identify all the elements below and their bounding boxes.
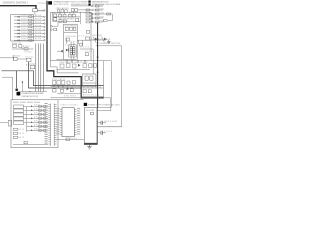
diode D1506 [14,32,34,35]
resistor R1506 [13,45,17,48]
capacitor C116 [61,9,64,12]
transistor Q701 [85,76,88,80]
diode D102 [60,50,62,53]
diode D601 [27,105,48,108]
wire t101 mid [64,31,78,33]
junction dots [66,60,67,61]
power transformer box [84,108,97,145]
svg-text:D1504: D1504 [21,25,28,27]
svg-text:C1505: C1505 [25,51,32,53]
svg-text:D601: D601 [34,105,40,107]
wire drop A [92,61,94,74]
wire link3 [51,97,82,99]
connector pin 6 [44,33,45,34]
svg-text:D1505: D1505 [21,29,28,31]
resistor R620 [66,138,69,141]
wire main board feed [96,46,122,127]
diode D607 [27,129,48,132]
svg-text:C109: C109 [85,51,92,53]
wire matrix row 1 [34,16,44,18]
IC601 body [62,108,74,137]
capacitor C115 [57,10,60,13]
svg-text:R154K: R154K [35,29,42,31]
connector pin 4 [44,26,45,27]
diode D1502 [14,18,34,21]
junction circles [53,85,54,86]
svg-text:POWER SUPPLY BOARD (AC 120V): POWER SUPPLY BOARD (AC 120V) [88,103,120,106]
resistor RP1501 [33,9,38,12]
wire transformer top [97,107,111,109]
relay contact [88,90,91,93]
wire drops [58,86,60,88]
svg-text:D602: D602 [34,109,40,111]
svg-text:R1507: R1507 [23,46,30,48]
wire secondary drops [66,39,68,44]
wire to key matrix [34,12,36,15]
svg-text:C801 0.0047: C801 0.0047 [104,121,117,123]
svg-text:D607: D607 [34,129,40,131]
diode D1505 [14,29,34,32]
svg-text:R150K: R150K [35,15,42,17]
IC601 pin ticks [60,109,62,111]
diode D602 [27,109,48,112]
resistor R502 [92,9,105,11]
svg-text:TO TUNER/AMP SECTION: TO TUNER/AMP SECTION [96,42,121,45]
svg-text:C802: C802 [104,131,112,133]
diode D1508 [14,39,34,42]
capacitor C108 [76,18,79,21]
wire collector line [18,91,48,93]
resistor R506 [103,14,112,21]
wire inner border [51,61,79,73]
wire band [53,21,80,23]
thick border section 1 [47,1,104,98]
svg-text:IC601 LC75421: IC601 LC75421 [61,105,78,107]
switching box T101 [64,24,78,59]
connector pin 2 [44,19,45,20]
wire matrix row 2 [34,19,44,21]
wire relay drops [83,86,85,88]
transformer core bar [84,143,97,145]
route arrow B+ 2 [97,72,99,73]
svg-text:C101 400V: C101 400V [66,36,77,38]
svg-text:D701 R701: D701 R701 [64,95,76,97]
diode D606 [27,125,48,128]
diode D701 [53,89,56,92]
key matrix box [11,15,34,41]
wire mid [77,39,91,41]
svg-text:D606: D606 [34,125,40,127]
ground main [107,40,111,43]
wire switch bank [26,107,28,132]
arrow up off-board [22,81,24,83]
svg-text:OPERATION BOARD 1: OPERATION BOARD 1 [53,1,71,4]
connector pin AC2 [51,29,53,31]
resistor R102 [72,14,75,17]
svg-text:R610: R610 [18,129,24,131]
svg-text:R151K: R151K [35,19,42,21]
diode D604 [27,117,48,120]
svg-text:SW601 SW602 SW603 SW604: SW601 SW602 SW603 SW604 [13,102,40,104]
rectifier D105 [60,64,97,69]
svg-text:D103: D103 [78,36,86,38]
wire link mid [57,93,81,95]
wire matrix row 6 [34,33,44,35]
svg-text:T801 PWR: T801 PWR [85,110,95,112]
svg-text:D605: D605 [34,121,40,123]
svg-text:SCHEMATIC DIAGRAM 1: SCHEMATIC DIAGRAM 1 [3,1,29,4]
capacitor C109 [85,53,88,56]
resistor R702 [60,89,63,92]
wire bus pin [37,9,43,11]
switch block SW62 [14,109,24,112]
svg-text:R1501: R1501 [38,10,44,12]
svg-text:D604: D604 [34,117,40,119]
svg-text:D1506: D1506 [21,32,28,34]
svg-text:(KEY SECTION): (KEY SECTION) [53,4,68,6]
svg-text:D603: D603 [34,113,40,115]
resistor R505 [92,21,105,23]
display board box [11,100,58,148]
junction dot [29,91,30,92]
svg-text:Q501 Q502: Q501 Q502 [92,35,102,37]
svg-text:R153K: R153K [35,25,42,27]
svg-text:R152K: R152K [35,22,42,24]
wire matrix row 5 [34,29,44,31]
switch block SW63 [14,113,24,116]
wire ac entry L [51,12,53,21]
capacitor C103 [71,9,74,12]
svg-text:SIGNAL ROUTE OF B+ DC VOLTAGE: SIGNAL ROUTE OF B+ DC VOLTAGE [92,3,121,6]
resistor R110 [80,43,83,46]
connector pin 7 [44,36,45,37]
ground power [87,145,92,149]
transistor Q101 [65,27,68,30]
wire top to right [78,9,91,11]
svg-text:R504: R504 [100,17,105,19]
regulator box [83,74,96,87]
capacitor C1504 [19,45,22,48]
svg-text:R155K: R155K [35,32,42,34]
wire drop B+ [97,23,99,108]
wire legend feed [71,5,92,7]
connector pins right [91,13,92,14]
fuse F102 [53,18,56,21]
fuse F101 [53,14,56,17]
capacitor C704 [70,89,73,92]
transistor Q102 [69,27,72,30]
svg-text:RY701 DC 12V: RY701 DC 12V [83,95,100,97]
wire cluster A [12,47,22,49]
connector board mark [16,89,18,91]
svg-text:D105 C110 C111 D106 C112: D105 C110 C111 D106 C112 C113 [60,62,88,64]
svg-text:R503: R503 [100,13,105,15]
wire ps bus 2 [51,86,82,88]
wire from left edge to CN602 [0,122,8,124]
connector pin 1 [44,16,45,17]
svg-text:TP1501: TP1501 [38,3,46,5]
wire matrix row 8 [34,39,44,41]
svg-text:NOTE: VOLTAGES: NOTE: VOLTAGES [71,0,88,3]
wire cluster B [17,58,27,60]
svg-text:R156K: R156K [35,35,42,37]
wire xfmr taps [70,41,72,47]
svg-text:D1502: D1502 [21,18,28,20]
svg-text:R1506 2.2K: R1506 2.2K [12,43,22,45]
wire from left edge y77 [2,77,13,100]
relay box [81,88,103,97]
switch block SW64 [14,117,24,120]
wire left drop [18,92,20,97]
diode D103 [86,37,90,40]
connector J1 [30,65,35,68]
svg-text:R620: R620 [71,138,77,140]
svg-text:(DISPLAY SECTION): (DISPLAY SECTION) [21,95,38,98]
capacitor C117 [86,31,89,34]
transistor Q702 [90,76,93,80]
wire B+ route left [2,71,104,86]
diode D702 [67,88,69,91]
transformer frame [69,45,76,57]
wire branch to board mark [16,71,18,89]
wire bottom bus [91,60,111,62]
capacitor C105 [63,14,66,17]
svg-text:R501: R501 [100,5,105,7]
wire ac [52,22,58,26]
resistor network RA101 [86,9,91,23]
svg-text:R611: R611 [18,133,24,135]
diode D1501 [14,15,34,18]
wire from left edge [0,57,14,59]
wire top drops [59,12,61,14]
svg-text:D1508: D1508 [21,39,28,41]
diode D1503 [14,22,34,25]
wire cap to feed [97,126,122,128]
capacitor C801 [97,121,117,125]
svg-text:D104: D104 [81,47,89,49]
switch block SW61 [14,105,24,108]
resistor R1507 [24,48,28,50]
section marker 2 [17,92,21,95]
svg-text:R502: R502 [100,9,105,11]
connector pin 5 [44,30,45,31]
wire psu bottom left [56,58,63,60]
transistor Q1501 [27,58,31,62]
wire ground route [29,62,82,88]
wire matrix row 4 [34,26,44,28]
connector pin AC1 [51,25,53,27]
svg-text:Q1501: Q1501 [26,57,34,59]
svg-text:R157K: R157K [35,39,42,41]
resistor R101 [69,14,72,17]
capacitor C802 [97,131,112,135]
inductor L101 [59,14,62,17]
capacitor C106 [59,20,62,23]
thermal fuse F801 [90,112,93,114]
wire link4 [58,99,84,101]
connector P701 [52,81,75,85]
connector pin 3 [44,23,45,24]
wire main top bus [0,6,36,9]
wire band top [53,16,80,18]
wire inner vertical [80,12,82,24]
capacitor C101 [66,38,70,41]
connector CN601 pins [48,103,50,105]
wire matrix row 3 [34,23,44,25]
svg-text:P501 MAIN BOARD: P501 MAIN BOARD [90,38,111,41]
diode D1507 [14,35,34,38]
wire matrix row 7 [34,36,44,38]
section marker 1 [48,1,52,4]
wire display bottom [13,144,48,146]
diode D1504 [14,25,34,28]
wire mid2 [80,49,93,61]
wire IC bottom [57,139,85,141]
capacitor C104 [75,9,78,12]
capacitor C107 [63,20,66,23]
route arrow B+ 1 [97,57,99,58]
wire under relay [81,97,104,99]
resistor R103 [73,27,76,30]
resistor R501 [92,5,105,7]
resistor R503 [92,13,105,15]
connector CN602 [8,120,11,126]
inductor L102 [65,10,68,13]
svg-text:D1501: D1501 [21,15,28,17]
section marker 3 [84,103,87,106]
resistor R504 [92,17,105,19]
resistor R610 [14,128,18,130]
diode D605 [27,121,48,124]
transistor Q501 [92,37,107,43]
connector pin 8 [44,40,45,41]
resistor R507 [103,20,107,22]
svg-text:R612: R612 [18,137,24,139]
capacitor C610 [24,141,27,144]
diode D101 [66,49,68,52]
resistor R611 [14,132,18,134]
resistor R612 [14,136,18,138]
switch block SW65 [14,121,24,124]
wire relay out [104,97,111,99]
wire drop C [103,61,105,88]
svg-text:D1503: D1503 [21,22,28,24]
wire bottom row [57,69,91,71]
svg-text:D1507: D1507 [21,35,28,37]
wire bus to display board [36,44,44,92]
diode D603 [27,113,48,116]
svg-text:MEASURED AT NO SIG.: MEASURED AT NO SIG. [92,0,109,3]
wire regulator [83,82,96,84]
svg-text:OPERATION/DISPLAY BOARD: OPERATION/DISPLAY BOARD [21,92,44,95]
connector CN601 rails [50,104,52,147]
relay coil [83,90,86,93]
connector pin bus [44,10,45,11]
svg-text:TO P11: TO P11 [28,63,35,65]
transformer T101 [70,47,75,55]
power board outer box [51,12,91,60]
wire drop D [110,61,112,108]
capacitor C114 [54,28,57,31]
